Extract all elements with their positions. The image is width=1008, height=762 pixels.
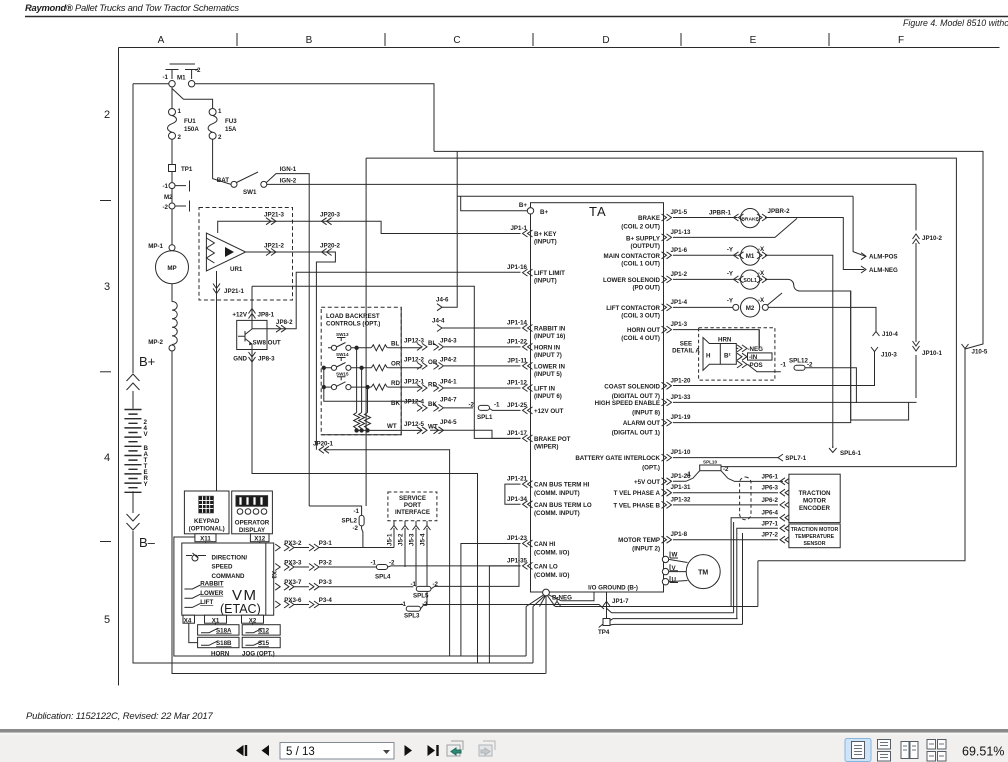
svg-text:3: 3 — [104, 281, 110, 293]
resistor R2 — [371, 365, 387, 371]
svg-text:SPL3: SPL3 — [404, 613, 420, 620]
svg-text:Y: Y — [144, 481, 149, 488]
splice SPL3 — [406, 606, 420, 611]
test point TP1 — [169, 165, 176, 172]
J5 pin labels rotated — [387, 533, 427, 546]
wire SPL4 to CAN LO — [388, 566, 521, 567]
svg-text:LOWER SOLENOID: LOWER SOLENOID — [603, 277, 661, 284]
svg-text:OR: OR — [391, 361, 401, 368]
svg-text:(OPT.): (OPT.) — [642, 465, 660, 472]
pin JP1-21 — [523, 481, 533, 488]
svg-text:(INPUT 6): (INPUT 6) — [534, 393, 562, 400]
svg-text:OPERATOR: OPERATOR — [235, 520, 270, 527]
svg-text:CAN BUS TERM HI: CAN BUS TERM HI — [534, 482, 590, 489]
svg-text:JP10-2: JP10-2 — [922, 235, 943, 242]
fuse FU1 150A — [169, 109, 176, 116]
connector X11 — [195, 534, 216, 542]
switch S12 box — [242, 625, 280, 635]
svg-text:DIRECTION/: DIRECTION/ — [212, 554, 248, 561]
svg-text:COAST SOLENOID: COAST SOLENOID — [604, 383, 660, 390]
svg-text:JPBR-2: JPBR-2 — [768, 208, 791, 215]
previous-view button — [447, 741, 463, 756]
pin JP1-34 — [523, 501, 533, 508]
connector JP6-2 — [780, 501, 790, 508]
svg-text:-1: -1 — [400, 601, 406, 608]
wire JP10 trunk — [673, 184, 917, 402]
wire JP20-3 to B+ KEY input — [327, 221, 521, 233]
divider resistor RV3 — [367, 387, 369, 412]
pin JP20-1 — [319, 446, 329, 453]
pin JP21-1 — [216, 271, 218, 491]
svg-text:TM: TM — [698, 570, 708, 577]
svg-text:(OUTPUT): (OUTPUT) — [630, 243, 660, 250]
svg-text:SW1: SW1 — [243, 189, 257, 196]
svg-text:5: 5 — [104, 614, 110, 626]
wire GND down to VM — [252, 362, 478, 664]
wire +12V line to JP1-17 riser — [252, 286, 521, 438]
terminal W — [662, 556, 668, 562]
wire top run 2 — [366, 158, 956, 506]
svg-text:S18A: S18A — [216, 627, 232, 634]
page number dropdown — [280, 743, 394, 760]
svg-text:-2: -2 — [195, 67, 201, 74]
pin JP1-11 — [523, 362, 533, 369]
op-amp UR1 — [206, 233, 245, 271]
svg-text:B+: B+ — [540, 209, 548, 216]
svg-text:B: B — [306, 35, 313, 46]
svg-text:JP4-2: JP4-2 — [440, 356, 457, 363]
svg-text:Raymond® Pallet Trucks and Tow: Raymond® Pallet Trucks and Tow Tractor S… — [25, 2, 239, 13]
pin JP1-32 — [662, 501, 672, 508]
coil M2 — [741, 298, 760, 317]
wire ground fan diagonals — [526, 595, 561, 607]
sheet border top — [119, 47, 1000, 49]
svg-text:JP1-25: JP1-25 — [507, 402, 528, 409]
terminal U — [662, 579, 668, 585]
connector X4 — [183, 615, 195, 623]
svg-text:S12: S12 — [258, 627, 270, 634]
switch S15 box — [242, 637, 280, 647]
pin JP12-5 / JP4-5 — [417, 427, 427, 434]
contactor M2 tips — [169, 183, 175, 189]
svg-text:B+: B+ — [519, 202, 527, 209]
svg-text:SPEED: SPEED — [212, 564, 234, 571]
svg-text:JP4-3: JP4-3 — [440, 337, 457, 344]
wire -POS to SPL12 — [748, 364, 781, 371]
pin JP1-7 — [606, 592, 608, 597]
svg-text:JP12-1: JP12-1 — [404, 379, 425, 386]
svg-text:RD: RD — [428, 381, 437, 388]
svg-text:TEMPERATURE: TEMPERATURE — [795, 534, 835, 540]
connector X3 strip — [265, 543, 267, 615]
wire CAN U-loop — [505, 484, 521, 504]
node sw13 out — [355, 346, 358, 349]
wire alarm out to spl6 riser — [673, 291, 851, 423]
svg-text:JP1-10: JP1-10 — [671, 449, 692, 456]
svg-text:JP1-22: JP1-22 — [507, 338, 528, 345]
svg-text:SOL1: SOL1 — [743, 278, 757, 284]
svg-text:P3-3: P3-3 — [319, 579, 333, 586]
svg-text:JP8-3: JP8-3 — [258, 356, 275, 363]
terminal V — [662, 568, 668, 574]
svg-text:WT: WT — [387, 423, 397, 430]
svg-text:HORN OUT: HORN OUT — [627, 327, 660, 334]
svg-text:M1: M1 — [746, 253, 755, 260]
svg-text:(COMM. INPUT): (COMM. INPUT) — [534, 490, 580, 497]
switch LIFT — [184, 603, 200, 607]
pin JP20-2 — [322, 249, 332, 256]
node sw15 out — [366, 385, 369, 388]
connector ALM-NEG — [861, 266, 866, 273]
module VM (ETAC) box — [182, 543, 274, 615]
pin JP1-13 — [662, 234, 672, 241]
module LOAD BACKREST dashed box — [321, 307, 401, 435]
svg-text:JP1-16: JP1-16 — [507, 264, 528, 271]
svg-text:BAT: BAT — [217, 177, 229, 184]
svg-text:MOTOR: MOTOR — [803, 498, 826, 505]
svg-text:JP7-2: JP7-2 — [761, 532, 778, 539]
svg-text:ALM-POS: ALM-POS — [869, 254, 898, 261]
wire V to TM — [669, 571, 687, 573]
svg-text:J5-2: J5-2 — [398, 533, 405, 546]
svg-text:(INPUT 7): (INPUT 7) — [534, 352, 562, 359]
node B+ terminal — [527, 208, 533, 214]
svg-text:MAIN CONTACTOR: MAIN CONTACTOR — [604, 253, 661, 260]
wire M1 to fuses — [172, 87, 213, 109]
svg-text:-X: -X — [758, 297, 765, 304]
wire +5V out via SPL10 — [673, 478, 783, 481]
pin JP1-23 — [523, 540, 533, 547]
last-page button — [428, 745, 439, 756]
svg-text:JP1-20: JP1-20 — [671, 377, 692, 384]
svg-text:JP1-3: JP1-3 — [671, 321, 688, 328]
pin J5-3 — [413, 521, 420, 530]
single-page layout button (selected) — [845, 739, 871, 762]
connector X1 — [205, 615, 227, 623]
svg-text:LIFT IN: LIFT IN — [534, 386, 555, 393]
motor MP terminal MP-2 — [169, 345, 175, 351]
switch SW14 — [331, 365, 336, 370]
svg-text:X3: X3 — [270, 571, 277, 579]
svg-text:J10-4: J10-4 — [882, 331, 898, 338]
svg-text:J10-5: J10-5 — [972, 349, 988, 356]
coil BRAKE — [741, 209, 760, 228]
connector ALM-POS — [853, 196, 865, 256]
wire M1-2 to B+ run — [195, 84, 434, 152]
svg-text:-X: -X — [758, 270, 765, 277]
svg-text:T VEL PHASE B: T VEL PHASE B — [613, 502, 660, 509]
svg-text:(INPUT 2): (INPUT 2) — [632, 546, 660, 553]
wire X4 to S18B — [189, 623, 253, 642]
node sw15 common — [322, 385, 325, 388]
svg-text:(WIPER): (WIPER) — [534, 444, 558, 451]
svg-text:SPL1: SPL1 — [477, 414, 493, 421]
connector JP7-2 — [780, 536, 790, 543]
svg-text:(OPTIONAL): (OPTIONAL) — [189, 526, 225, 533]
header rule — [25, 16, 1008, 18]
pin JP20-3 — [322, 218, 332, 225]
controller TA box — [531, 203, 664, 592]
svg-text:BRAKE POT: BRAKE POT — [534, 436, 571, 443]
wire SPL5 to CAN HI — [431, 544, 521, 589]
svg-text:JP4-5: JP4-5 — [440, 419, 457, 426]
splice SPL5 — [416, 586, 431, 591]
battery polarity chevrons down — [127, 514, 140, 530]
svg-text:JP1-34: JP1-34 — [507, 496, 528, 503]
svg-text:JP6-4: JP6-4 — [761, 510, 778, 517]
wire JP1-3 to horn — [673, 330, 759, 349]
svg-text:JP6-2: JP6-2 — [761, 497, 778, 504]
svg-text:JP12-5: JP12-5 — [404, 421, 425, 428]
svg-text:(INPUT 8): (INPUT 8) — [632, 409, 660, 416]
resistor R3 — [371, 384, 387, 390]
svg-text:Publication: 1152122C, Revised: Publication: 1152122C, Revised: 22 Mar 2… — [26, 711, 214, 722]
svg-text:-1: -1 — [370, 560, 376, 567]
wire TM bundle horizontals — [558, 607, 758, 625]
direction/speed lever icon — [186, 553, 206, 561]
svg-text:JP1-8: JP1-8 — [671, 531, 688, 538]
svg-text:SEE: SEE — [680, 341, 692, 348]
svg-text:-2: -2 — [352, 525, 358, 532]
svg-text:P3-2: P3-2 — [319, 560, 333, 567]
svg-text:J5-4: J5-4 — [420, 533, 427, 546]
svg-text:JP20-1: JP20-1 — [313, 440, 334, 447]
svg-text:M2: M2 — [746, 305, 755, 312]
switch S18B box — [198, 637, 239, 647]
svg-text:FU1: FU1 — [184, 118, 196, 125]
wire TP1 to M2 — [171, 172, 173, 183]
svg-text:(DIGITAL OUT 1): (DIGITAL OUT 1) — [612, 430, 660, 437]
toolbar top border band — [0, 729, 1008, 733]
svg-text:A: A — [158, 35, 165, 46]
next-page button — [405, 745, 413, 756]
svg-text:JP1-31: JP1-31 — [671, 484, 692, 491]
wire top run 1 (B+ key feed) — [434, 151, 983, 349]
wire IGN-1 to SPL2 to P3-1 row — [309, 506, 363, 548]
svg-text:JP1-17: JP1-17 — [507, 430, 528, 437]
connector JP10-2 — [913, 234, 920, 244]
svg-text:BL: BL — [391, 341, 399, 348]
svg-text:SENSOR: SENSOR — [804, 541, 826, 547]
svg-text:WT: WT — [428, 424, 438, 431]
svg-text:JP21-1: JP21-1 — [224, 288, 245, 295]
svg-text:JP1-33: JP1-33 — [671, 394, 692, 401]
motor MP terminal MP-1 — [169, 245, 175, 251]
svg-text:JP1-35: JP1-35 — [507, 557, 528, 564]
svg-text:PX3-7: PX3-7 — [284, 579, 302, 586]
svg-text:M1: M1 — [177, 75, 186, 82]
connector JP6-3 — [780, 489, 790, 496]
wire IGN-2 — [267, 183, 916, 185]
battery 24V — [124, 410, 141, 493]
contactor M1 main tips — [166, 70, 199, 80]
svg-text:CAN LO: CAN LO — [534, 563, 558, 570]
module SW8 box — [237, 320, 267, 349]
transistor Q inside SW8 — [238, 320, 252, 349]
connector X12 — [250, 534, 269, 542]
row labels — [104, 109, 110, 626]
svg-text:SPL5: SPL5 — [413, 593, 429, 600]
connector SPL7-1 — [778, 454, 783, 461]
svg-text:CAN HI: CAN HI — [534, 541, 556, 548]
wire ground enclosure — [174, 537, 526, 656]
continuous layout button — [878, 740, 891, 762]
svg-text:JP12-3: JP12-3 — [404, 337, 425, 344]
svg-text:MP: MP — [167, 265, 176, 272]
svg-text:BL: BL — [428, 340, 436, 347]
next-view button (disabled) — [479, 741, 495, 756]
svg-text:LIFT LIMIT: LIFT LIMIT — [534, 270, 565, 277]
svg-text:SPL2: SPL2 — [342, 518, 358, 525]
node B-NEG junction — [543, 589, 550, 596]
svg-text:SW15: SW15 — [336, 371, 349, 376]
wire JP1-4 to M2 coil — [673, 307, 876, 327]
svg-text:(COIL 3 OUT): (COIL 3 OUT) — [621, 313, 660, 320]
pin JP1-19 — [662, 419, 672, 426]
pin JP21-3 — [218, 221, 327, 233]
wire B+ feed to TA — [461, 196, 528, 211]
svg-text:JP10-1: JP10-1 — [922, 350, 943, 357]
wire SPL12 onward — [805, 368, 856, 403]
connector X2 — [242, 615, 264, 623]
svg-text:TP4: TP4 — [598, 629, 610, 636]
svg-text:1: 1 — [178, 108, 182, 115]
svg-text:JP8-1: JP8-1 — [258, 312, 275, 319]
svg-text:I/O GROUND (B-): I/O GROUND (B-) — [588, 584, 638, 591]
wire IGN-1 — [266, 174, 309, 506]
wire SPL10 top to right trunk — [721, 466, 956, 468]
svg-text:JP12-4: JP12-4 — [404, 398, 425, 405]
pin JP1-1 — [523, 230, 533, 237]
svg-text:P3-4: P3-4 — [319, 597, 333, 604]
svg-text:HIGH SPEED ENABLE: HIGH SPEED ENABLE — [595, 400, 660, 407]
svg-text:SPL4: SPL4 — [375, 574, 391, 581]
toolbar background — [0, 729, 1008, 762]
svg-text:JP4-1: JP4-1 — [440, 379, 457, 386]
connector SPL6-1 — [829, 446, 837, 453]
svg-text:JP12-2: JP12-2 — [404, 356, 425, 363]
two-page layout button — [901, 742, 918, 759]
pin JP1-5 — [662, 214, 672, 221]
svg-text:JP1-23: JP1-23 — [507, 535, 528, 542]
svg-text:+12V OUT: +12V OUT — [534, 408, 564, 415]
svg-text:-1: -1 — [494, 401, 500, 408]
first-page button — [236, 745, 247, 756]
svg-text:MP-2: MP-2 — [148, 339, 163, 346]
fuse FU3 15A — [209, 109, 216, 116]
svg-text:INTERFACE: INTERFACE — [395, 509, 430, 516]
svg-text:PORT: PORT — [404, 502, 421, 509]
svg-text:GND: GND — [233, 356, 247, 363]
svg-text:UR1: UR1 — [230, 266, 243, 273]
svg-text:(INPUT 16): (INPUT 16) — [534, 333, 565, 340]
svg-text:JP7-1: JP7-1 — [761, 520, 778, 527]
svg-text:JP1-19: JP1-19 — [671, 414, 692, 421]
wire sw14 row — [324, 367, 422, 369]
svg-text:JP6-3: JP6-3 — [761, 485, 778, 492]
pin JP1-31 — [662, 489, 672, 496]
column ticks — [236, 33, 238, 46]
two-page continuous layout button — [927, 740, 946, 762]
svg-text:JP6-1: JP6-1 — [761, 473, 778, 480]
svg-text:DISPLAY: DISPLAY — [239, 527, 266, 534]
divider resistor RV1 — [356, 348, 358, 413]
wire M2 -X diagonal join — [768, 291, 909, 420]
svg-text:+5V OUT: +5V OUT — [634, 479, 660, 486]
pin PX3-6 / P3-4 — [275, 601, 280, 608]
pin J4-6 — [437, 304, 442, 311]
switch SW15 — [331, 385, 336, 390]
svg-text:COMMAND: COMMAND — [212, 573, 246, 580]
svg-text:X4: X4 — [184, 617, 192, 624]
pin JP1-4 — [662, 304, 672, 311]
svg-text:HORN IN: HORN IN — [534, 344, 561, 351]
module traction motor temperature sensor — [789, 524, 840, 548]
svg-text:-IN: -IN — [749, 354, 758, 361]
svg-text:ALARM OUT: ALARM OUT — [623, 420, 660, 427]
wire TP4 diagonals — [599, 608, 614, 627]
column labels — [158, 35, 904, 46]
svg-text:SPL12: SPL12 — [789, 358, 808, 365]
pin J5-1 — [391, 521, 398, 530]
pin JP1-6 — [662, 252, 672, 259]
pin JP1-16 — [523, 269, 533, 276]
svg-text:PX3-2: PX3-2 — [284, 540, 302, 547]
pin PX3-7 / P3-3 — [275, 583, 280, 590]
wire fan verticals to ground bus — [526, 607, 558, 674]
wire common bus — [324, 368, 422, 402]
svg-text:JP1-4: JP1-4 — [671, 299, 688, 306]
svg-text:H: H — [706, 353, 711, 360]
svg-text:-2: -2 — [468, 401, 474, 408]
svg-text:J5-1: J5-1 — [387, 533, 394, 546]
svg-text:(INPUT 5): (INPUT 5) — [534, 371, 562, 378]
svg-text:JP1-7: JP1-7 — [612, 598, 629, 605]
svg-text:TA: TA — [589, 204, 607, 219]
module traction motor encoder — [789, 474, 840, 522]
wire M1 feed from battery bus — [133, 83, 169, 85]
switch LOWER — [184, 594, 200, 598]
wire bundle risers — [734, 522, 743, 624]
splice SPL4 — [376, 565, 387, 570]
svg-text:ALM-NEG: ALM-NEG — [869, 267, 898, 274]
pin J4-4 — [437, 325, 442, 332]
svg-text:(COIL 2 OUT): (COIL 2 OUT) — [621, 224, 660, 231]
horn terminal -IN — [737, 353, 747, 360]
svg-text:JP21-2: JP21-2 — [264, 243, 285, 250]
shielded cable marker — [740, 477, 751, 520]
svg-text:-1: -1 — [410, 581, 416, 588]
svg-text:JP1-11: JP1-11 — [507, 357, 527, 364]
svg-text:(COMM. I/O): (COMM. I/O) — [534, 572, 569, 579]
svg-text:JP1-13: JP1-13 — [671, 229, 692, 236]
wire JP1-13 B+ supply — [673, 218, 797, 237]
svg-text:BRAKE: BRAKE — [638, 215, 660, 222]
svg-text:X12: X12 — [254, 536, 266, 543]
wire X11 to VM — [205, 542, 207, 543]
switch SW13 — [331, 345, 336, 350]
wire top run 3 — [457, 195, 853, 197]
module UR1 dashed box — [199, 208, 293, 301]
svg-text:(INPUT): (INPUT) — [534, 239, 557, 246]
svg-text:P3-1: P3-1 — [319, 540, 333, 547]
pin PX3-2 / P3-1 — [275, 544, 280, 551]
pin JP21-2 — [246, 251, 327, 253]
svg-text:2: 2 — [178, 134, 182, 141]
node resistor joins — [355, 429, 358, 432]
connector J10-4 — [873, 327, 880, 336]
test point TP4 — [603, 619, 610, 626]
